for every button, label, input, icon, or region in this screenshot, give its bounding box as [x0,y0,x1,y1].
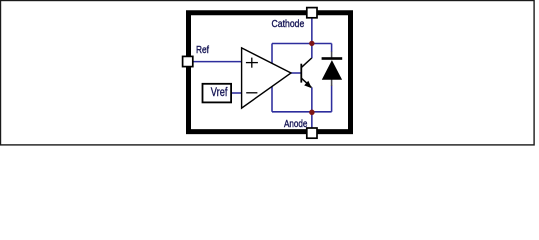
svg-text:Anode: Anode [284,119,308,130]
svg-text:Vref: Vref [211,85,228,99]
svg-text:Cathode: Cathode [272,19,305,30]
svg-text:Ref: Ref [196,45,209,56]
